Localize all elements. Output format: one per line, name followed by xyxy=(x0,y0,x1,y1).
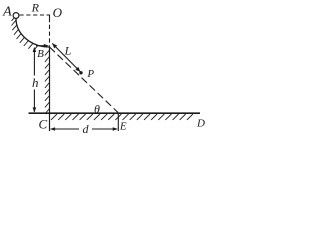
svg-text:L: L xyxy=(64,44,72,58)
svg-text:E: E xyxy=(119,120,127,132)
svg-text:O: O xyxy=(53,5,63,20)
svg-text:D: D xyxy=(196,117,205,129)
svg-text:d: d xyxy=(83,122,90,136)
svg-text:h: h xyxy=(32,75,39,90)
svg-text:A: A xyxy=(2,4,12,19)
svg-text:P: P xyxy=(86,68,94,80)
svg-text:R: R xyxy=(31,0,40,14)
svg-text:θ: θ xyxy=(94,102,100,116)
svg-text:B: B xyxy=(37,48,44,60)
svg-text:C: C xyxy=(38,117,47,132)
